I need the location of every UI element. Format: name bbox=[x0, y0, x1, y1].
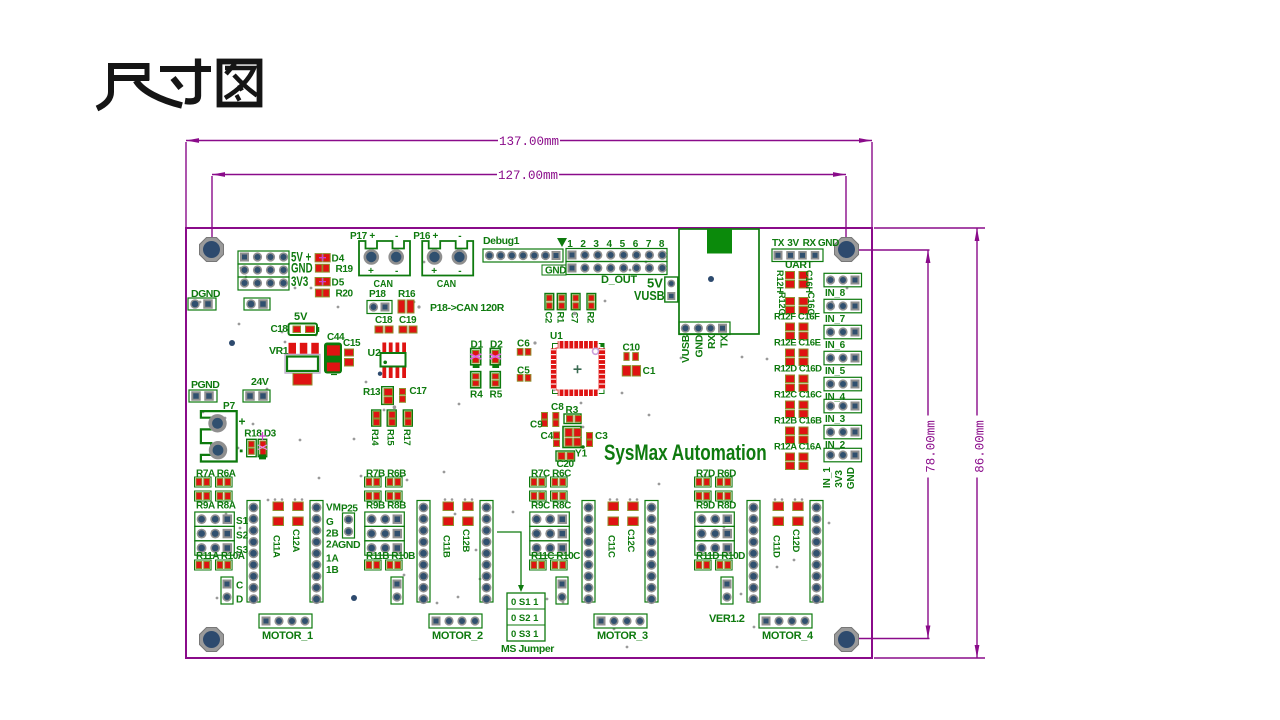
svg-text:GND: GND bbox=[545, 266, 566, 277]
svg-text:3V3: 3V3 bbox=[291, 274, 309, 289]
svg-text:IN_7: IN_7 bbox=[825, 314, 846, 325]
svg-text:R2: R2 bbox=[584, 312, 595, 323]
svg-text:+: + bbox=[431, 266, 437, 277]
svg-text:R12D C16D: R12D C16D bbox=[774, 364, 822, 375]
svg-text:VUSB: VUSB bbox=[680, 334, 692, 363]
svg-text:VER1.2: VER1.2 bbox=[709, 613, 745, 625]
svg-text:R12B C16B: R12B C16B bbox=[774, 416, 822, 427]
svg-text:R12H: R12H bbox=[775, 270, 785, 293]
svg-text:C: C bbox=[236, 581, 243, 592]
svg-text:127.00mm: 127.00mm bbox=[498, 169, 558, 183]
svg-text:C18: C18 bbox=[271, 324, 289, 335]
svg-text:C11B: C11B bbox=[441, 535, 452, 558]
svg-text:R12A C16A: R12A C16A bbox=[774, 442, 822, 453]
svg-text:C12B: C12B bbox=[460, 529, 471, 553]
svg-text:C8: C8 bbox=[551, 402, 564, 413]
svg-text:TX: TX bbox=[772, 238, 785, 249]
svg-text:U1: U1 bbox=[550, 331, 563, 342]
svg-text:R5: R5 bbox=[490, 390, 503, 401]
svg-text:P18->CAN 120R: P18->CAN 120R bbox=[430, 302, 505, 314]
svg-text:GND: GND bbox=[338, 539, 361, 551]
svg-text:R12E C16E: R12E C16E bbox=[774, 338, 821, 349]
svg-text:R17: R17 bbox=[401, 429, 412, 445]
svg-text:IN_4: IN_4 bbox=[825, 392, 846, 403]
svg-text:D_OUT: D_OUT bbox=[601, 274, 637, 286]
svg-text:RX: RX bbox=[706, 335, 718, 349]
svg-text:C11C: C11C bbox=[606, 535, 617, 558]
svg-text:CAN: CAN bbox=[437, 279, 457, 291]
svg-text:VM: VM bbox=[326, 503, 341, 514]
svg-text:GND: GND bbox=[846, 467, 857, 489]
svg-text:R20: R20 bbox=[336, 289, 354, 300]
svg-text:D4: D4 bbox=[332, 254, 345, 265]
svg-text:R4: R4 bbox=[470, 390, 483, 401]
svg-text:C12C: C12C bbox=[625, 529, 636, 553]
svg-text:MOTOR_3: MOTOR_3 bbox=[597, 630, 648, 642]
svg-text:+: + bbox=[239, 415, 246, 429]
svg-text:2B: 2B bbox=[326, 529, 339, 540]
svg-text:G: G bbox=[326, 517, 334, 528]
svg-text:R7C R6C: R7C R6C bbox=[531, 469, 571, 480]
svg-text:C2: C2 bbox=[542, 312, 553, 323]
svg-text:MOTOR_1: MOTOR_1 bbox=[262, 630, 313, 642]
svg-text:C15: C15 bbox=[343, 338, 361, 349]
svg-text:R13: R13 bbox=[363, 387, 381, 398]
svg-text:R14: R14 bbox=[369, 429, 380, 446]
svg-text:IN_6: IN_6 bbox=[825, 340, 846, 351]
svg-text:R12C C16C: R12C C16C bbox=[774, 390, 822, 401]
svg-text:3V3: 3V3 bbox=[834, 470, 845, 488]
svg-text:C19: C19 bbox=[399, 315, 417, 326]
svg-text:1B: 1B bbox=[326, 565, 339, 576]
svg-text:MOTOR_4: MOTOR_4 bbox=[762, 630, 814, 642]
svg-text:R9A R8A: R9A R8A bbox=[196, 501, 236, 512]
svg-text:R7B R6B: R7B R6B bbox=[366, 469, 406, 480]
svg-text:P18: P18 bbox=[369, 289, 386, 300]
svg-text:C12D: C12D bbox=[790, 529, 801, 553]
svg-text:0 S3 1: 0 S3 1 bbox=[511, 629, 539, 640]
svg-text:C1: C1 bbox=[643, 366, 656, 377]
svg-text:S2: S2 bbox=[236, 531, 249, 542]
svg-text:MOTOR_2: MOTOR_2 bbox=[432, 630, 483, 642]
svg-text:IN_1: IN_1 bbox=[822, 467, 833, 489]
svg-text:S1: S1 bbox=[236, 516, 249, 527]
svg-text:GND: GND bbox=[818, 238, 839, 249]
svg-text:SysMax Automation: SysMax Automation bbox=[604, 441, 767, 466]
svg-text:R18 D3: R18 D3 bbox=[244, 429, 276, 440]
svg-text:IN_8: IN_8 bbox=[825, 288, 846, 299]
svg-text:1A: 1A bbox=[326, 554, 339, 565]
svg-text:C11D: C11D bbox=[771, 535, 782, 558]
svg-text:D5: D5 bbox=[332, 278, 345, 289]
svg-text:-: - bbox=[395, 266, 398, 277]
svg-text:C16H: C16H bbox=[804, 270, 814, 293]
svg-text:Y1: Y1 bbox=[575, 449, 588, 460]
svg-text:137.00mm: 137.00mm bbox=[499, 135, 559, 149]
svg-text:PGND: PGND bbox=[191, 379, 220, 391]
svg-text:IN_2: IN_2 bbox=[825, 440, 846, 451]
svg-text:RX: RX bbox=[803, 238, 817, 249]
svg-text:GND: GND bbox=[693, 334, 705, 357]
svg-text:C6: C6 bbox=[517, 339, 530, 350]
svg-text:R1: R1 bbox=[555, 312, 566, 324]
svg-text:C4: C4 bbox=[541, 431, 554, 442]
svg-text:24V: 24V bbox=[251, 376, 269, 388]
svg-text:3V: 3V bbox=[787, 238, 799, 249]
svg-text:U2: U2 bbox=[368, 347, 382, 359]
svg-text:-: - bbox=[458, 266, 461, 277]
svg-text:C9: C9 bbox=[530, 420, 543, 431]
svg-text:R9B R8B: R9B R8B bbox=[366, 501, 406, 512]
svg-text:C18: C18 bbox=[375, 315, 393, 326]
svg-text:R15: R15 bbox=[385, 429, 396, 446]
svg-text:IN_3: IN_3 bbox=[825, 414, 846, 425]
svg-text:MS Jumper: MS Jumper bbox=[501, 643, 554, 655]
svg-text:C12A: C12A bbox=[290, 529, 301, 553]
svg-text:Debug1: Debug1 bbox=[483, 235, 520, 247]
svg-text:C10: C10 bbox=[623, 343, 641, 354]
svg-text:VUSB: VUSB bbox=[634, 288, 665, 303]
svg-text:D: D bbox=[236, 595, 243, 606]
svg-text:R9D R8D: R9D R8D bbox=[696, 501, 736, 512]
svg-text:0 S1 1: 0 S1 1 bbox=[511, 597, 539, 608]
svg-text:R12F C16F: R12F C16F bbox=[774, 312, 820, 323]
svg-text:S3: S3 bbox=[236, 545, 249, 556]
svg-text:86.00mm: 86.00mm bbox=[974, 420, 988, 473]
svg-text:R7D R6D: R7D R6D bbox=[696, 469, 736, 480]
svg-text:R19: R19 bbox=[336, 264, 354, 275]
svg-text:78.00mm: 78.00mm bbox=[925, 420, 939, 473]
svg-text:C11A: C11A bbox=[271, 535, 282, 558]
svg-text:0 S2 1: 0 S2 1 bbox=[511, 613, 539, 624]
svg-text:R9C R8C: R9C R8C bbox=[531, 501, 571, 512]
svg-text:C17: C17 bbox=[409, 386, 427, 397]
svg-text:2A: 2A bbox=[326, 540, 339, 551]
svg-text:5V: 5V bbox=[294, 311, 308, 323]
svg-text:TX: TX bbox=[719, 335, 731, 348]
svg-text:+: + bbox=[368, 266, 374, 277]
svg-text:IN_5: IN_5 bbox=[825, 366, 846, 377]
svg-text:CAN: CAN bbox=[374, 279, 394, 291]
svg-text:-: - bbox=[458, 231, 461, 242]
svg-text:-: - bbox=[395, 231, 398, 242]
svg-text:R16: R16 bbox=[398, 289, 416, 300]
